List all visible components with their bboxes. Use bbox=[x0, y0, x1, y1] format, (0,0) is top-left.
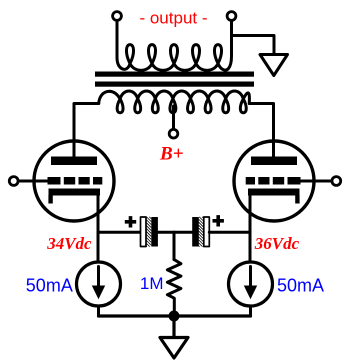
transformer T1 primary winding bbox=[99, 91, 250, 113]
wire center node to C2 bbox=[174, 231, 192, 234]
B+ terminal bbox=[169, 129, 178, 138]
resistor R1 1M zigzag bbox=[167, 260, 181, 312]
svg-text:1M: 1M bbox=[140, 274, 164, 293]
tube V2 grid (dashes) bbox=[246, 177, 301, 185]
plus sign C2 bbox=[213, 215, 224, 226]
tube V2 cathode bbox=[248, 189, 300, 196]
bottom rail wire bbox=[99, 314, 251, 317]
wire center node down to R1 bbox=[173, 232, 176, 259]
svg-text:- output -: - output - bbox=[139, 8, 207, 27]
wire V2 cathode down to I2 bbox=[249, 194, 252, 263]
junction node bbox=[169, 311, 180, 322]
tube V1 cathode bbox=[49, 189, 101, 196]
wire junction to ground bbox=[172, 316, 175, 337]
wire primary right end to V2 plate bbox=[249, 104, 273, 158]
grid terminal right bbox=[332, 177, 341, 186]
wire grid lead right bbox=[300, 180, 332, 183]
wire V1 cathode down to I1 bbox=[97, 194, 100, 263]
capacitor C1 negative plate bbox=[151, 217, 158, 247]
wire V1 cathode to C1 bbox=[98, 231, 141, 234]
svg-text:50mA: 50mA bbox=[277, 276, 324, 296]
current source I1 arrow bbox=[97, 267, 100, 288]
wire C1 to center node bbox=[158, 231, 174, 234]
transformer core bbox=[95, 72, 254, 77]
plus sign C1 bbox=[125, 216, 136, 227]
svg-text:36Vdc: 36Vdc bbox=[254, 234, 300, 253]
wire primary left end to V1 plate bbox=[74, 104, 99, 158]
svg-text:50mA: 50mA bbox=[26, 276, 73, 296]
capacitor C1 positive plate bbox=[141, 217, 147, 247]
current source I2 arrow bbox=[249, 267, 252, 288]
wire I1 to rail bbox=[97, 306, 100, 316]
bottom ground symbol bbox=[160, 338, 188, 359]
capacitor C2 hatch bbox=[199, 217, 204, 247]
capacitor C2 negative plate bbox=[192, 217, 199, 247]
tube V1 envelope bbox=[34, 141, 114, 221]
tube V1 grid (dashes) bbox=[48, 177, 103, 185]
current source I1 circle bbox=[77, 262, 121, 306]
output terminal right bbox=[227, 12, 236, 21]
wire secondary right terminal to upper ground bbox=[232, 36, 275, 55]
center tap wire bbox=[172, 106, 175, 129]
svg-text:B+: B+ bbox=[159, 144, 184, 165]
tube V2 plate bbox=[251, 157, 297, 166]
current source I2 circle bbox=[229, 262, 273, 306]
svg-text:34Vdc: 34Vdc bbox=[46, 234, 92, 253]
wire I2 to rail bbox=[249, 306, 252, 316]
tube V2 envelope bbox=[234, 141, 314, 221]
upper ground symbol bbox=[260, 55, 288, 76]
grid terminal left bbox=[9, 177, 18, 186]
tube V1 plate bbox=[51, 157, 97, 166]
wire C2 to V2 cathode bbox=[209, 231, 250, 234]
transformer T1 secondary winding bbox=[117, 20, 232, 70]
capacitor C2 positive plate bbox=[204, 217, 210, 247]
capacitor C1 hatch bbox=[146, 217, 151, 247]
wire grid lead left bbox=[18, 180, 48, 183]
output terminal left bbox=[113, 12, 122, 21]
